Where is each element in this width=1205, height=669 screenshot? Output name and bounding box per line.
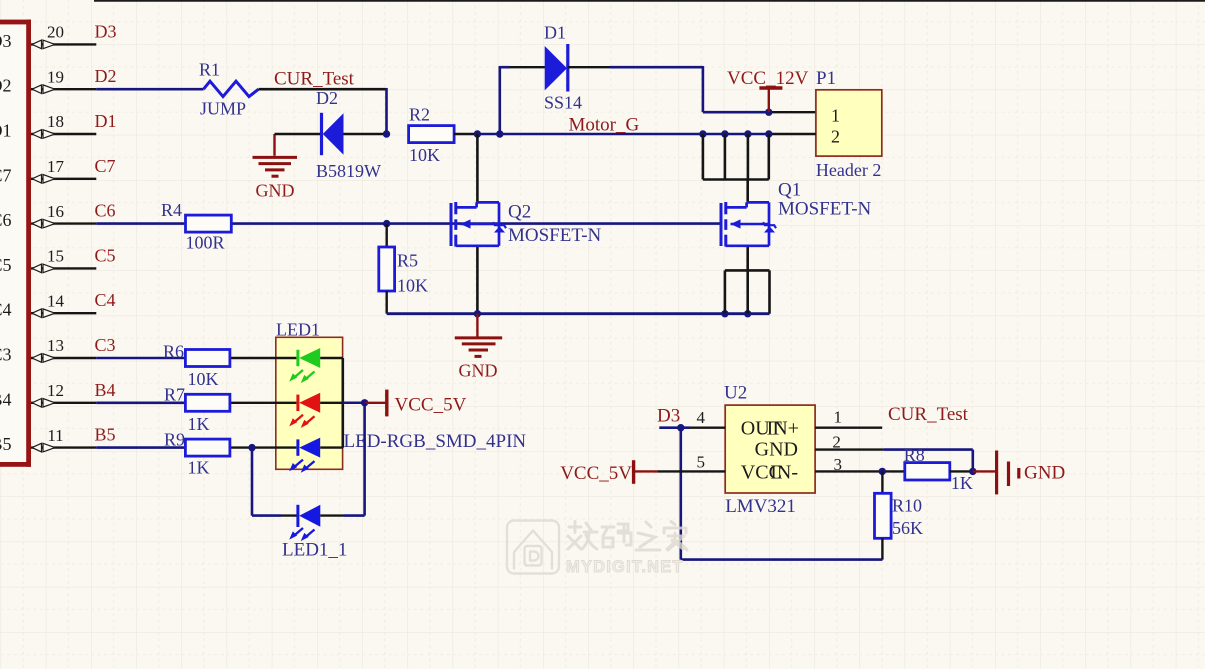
resistor R10 bbox=[881, 471, 883, 493]
svg-text:R9: R9 bbox=[164, 429, 185, 449]
junction R8/GND bbox=[969, 468, 976, 475]
wire R1 to CUR_Test corner bbox=[259, 88, 387, 91]
MCU pin 17 (C7) bbox=[31, 178, 96, 180]
svg-text:1: 1 bbox=[831, 105, 840, 125]
MCU pin 14 (C4) bbox=[31, 312, 96, 314]
wire source rail bbox=[387, 312, 770, 315]
junction ladder 2 bbox=[721, 130, 728, 137]
svg-text:18: 18 bbox=[47, 112, 64, 131]
wire net C3 to R6 bbox=[96, 357, 185, 360]
svg-text:2: 2 bbox=[832, 432, 841, 451]
diode D2 bbox=[275, 133, 322, 135]
wire feedback vertical bbox=[679, 428, 682, 560]
resistor R5 bbox=[386, 224, 388, 247]
svg-text:15: 15 bbox=[47, 247, 64, 266]
wire Q1 source ladder bbox=[725, 269, 770, 272]
wire Q1 source stem bbox=[746, 245, 749, 271]
wire ladder verticals (Q1 drain bus) bbox=[702, 134, 705, 180]
resistor R6 bbox=[185, 350, 230, 367]
junction VCC_5V/LED node bbox=[361, 399, 368, 406]
svg-text:1K: 1K bbox=[951, 473, 973, 493]
MCU connector body (left, partially off-sheet) bbox=[0, 24, 26, 462]
resistor R7 bbox=[185, 394, 230, 411]
junction B5 branch bbox=[248, 444, 255, 451]
wire common anode to VCC node bbox=[343, 402, 365, 405]
svg-text:3: 3 bbox=[833, 455, 842, 474]
svg-text:C6: C6 bbox=[0, 210, 12, 230]
svg-text:R7: R7 bbox=[164, 385, 185, 405]
wire net B4 to R7 bbox=[96, 401, 185, 404]
svg-text:1K: 1K bbox=[188, 458, 210, 478]
svg-text:D1: D1 bbox=[544, 23, 566, 43]
svg-text:C5: C5 bbox=[0, 255, 12, 275]
junction rail Q1b bbox=[744, 310, 751, 317]
LED1 blue element bbox=[230, 446, 297, 448]
svg-text:1: 1 bbox=[833, 408, 842, 427]
svg-text:JUMP: JUMP bbox=[200, 99, 246, 119]
svg-text:16: 16 bbox=[47, 202, 64, 221]
svg-text:100R: 100R bbox=[186, 233, 225, 253]
svg-text:GND: GND bbox=[1024, 463, 1065, 484]
svg-text:CUR_Test: CUR_Test bbox=[274, 68, 355, 89]
svg-text:13: 13 bbox=[47, 336, 64, 355]
watermark chinese text bbox=[568, 522, 687, 551]
junction ladder 1 bbox=[699, 130, 706, 137]
svg-text:20: 20 bbox=[47, 23, 64, 42]
wire ladder bus bar bbox=[703, 178, 769, 181]
svg-text:LED1: LED1 bbox=[276, 320, 320, 340]
svg-text:D1: D1 bbox=[95, 111, 117, 131]
svg-text:56K: 56K bbox=[892, 518, 923, 538]
svg-text:R1: R1 bbox=[199, 60, 220, 80]
svg-text:U2: U2 bbox=[724, 383, 747, 404]
svg-text:Motor_G: Motor_G bbox=[569, 114, 640, 135]
resistor R8 bbox=[905, 463, 950, 480]
svg-text:R8: R8 bbox=[904, 445, 925, 465]
junction node CUR_Test/D2/R2 bbox=[383, 130, 390, 137]
svg-text:Q1: Q1 bbox=[778, 180, 801, 201]
svg-text:B4: B4 bbox=[95, 380, 116, 400]
svg-text:C7: C7 bbox=[0, 165, 12, 185]
svg-text:LED-RGB_SMD_4PIN: LED-RGB_SMD_4PIN bbox=[344, 431, 527, 452]
svg-text:Q2: Q2 bbox=[508, 202, 531, 223]
svg-text:C4: C4 bbox=[95, 290, 116, 310]
svg-text:P1: P1 bbox=[816, 68, 836, 89]
wire D1 cathode to header bbox=[610, 66, 703, 69]
U2 pin 3 wire bbox=[815, 470, 905, 472]
diode D1 bbox=[510, 66, 545, 68]
junction D1 branch bbox=[496, 130, 503, 137]
svg-text:MOSFET-N: MOSFET-N bbox=[508, 225, 602, 246]
power symbol VCC_12V bbox=[768, 89, 770, 113]
wire D1 anode branch vertical bbox=[498, 66, 501, 134]
svg-text:4: 4 bbox=[697, 408, 706, 427]
svg-text:C3: C3 bbox=[0, 345, 12, 365]
MCU pin 19 (D2) bbox=[31, 88, 96, 90]
svg-text:11: 11 bbox=[47, 426, 63, 445]
wire CUR_Test vertical bbox=[385, 88, 388, 134]
MCU pin 18 (D1) bbox=[31, 133, 96, 135]
svg-text:MYDIGIT.NET: MYDIGIT.NET bbox=[566, 558, 684, 576]
MCU pin 20 (D3) bbox=[31, 43, 96, 45]
ground symbol GND (mid) bbox=[476, 314, 478, 337]
svg-text:C5: C5 bbox=[95, 245, 116, 265]
svg-text:GND: GND bbox=[459, 361, 498, 381]
junction Q2 drain bbox=[474, 130, 481, 137]
svg-text:D2: D2 bbox=[0, 76, 12, 96]
svg-text:17: 17 bbox=[47, 157, 65, 176]
svg-text:R10: R10 bbox=[892, 496, 922, 516]
LED component LED1 (RGB) bbox=[276, 337, 343, 469]
MCU pin 11 (B5) bbox=[31, 446, 96, 448]
svg-text:19: 19 bbox=[47, 67, 64, 86]
svg-text:VCC_5V: VCC_5V bbox=[395, 395, 467, 416]
wire Q2 drain stem bbox=[476, 134, 479, 203]
svg-text:14: 14 bbox=[47, 291, 65, 310]
svg-text:C7: C7 bbox=[95, 156, 116, 176]
ground symbol GND (under D2) bbox=[273, 134, 275, 156]
transistor Q2 MOSFET-N bbox=[450, 203, 453, 246]
svg-text:VCC_12V: VCC_12V bbox=[727, 68, 809, 89]
wire LED1_1 anode up to VCC node bbox=[320, 514, 344, 516]
wire D1 anode horizontal bbox=[500, 66, 510, 69]
junction rail/GND bbox=[474, 310, 481, 317]
watermark logo (mydigit house) bbox=[507, 521, 559, 574]
resistor R9 bbox=[185, 439, 230, 456]
LED1 green element bbox=[230, 357, 297, 359]
wire net C6 to R4 bbox=[96, 222, 185, 225]
svg-text:R6: R6 bbox=[163, 342, 184, 362]
junction rail Q1a bbox=[721, 310, 728, 317]
MCU pin 16 (C6) bbox=[31, 222, 96, 224]
U2 pin 5 wire bbox=[657, 470, 725, 472]
svg-text:CUR_Test: CUR_Test bbox=[888, 404, 969, 425]
svg-text:C3: C3 bbox=[95, 335, 116, 355]
svg-text:R5: R5 bbox=[397, 251, 418, 271]
wire gate drive (R4 to Q2/Q1 gates) bbox=[231, 222, 721, 225]
svg-text:10K: 10K bbox=[188, 369, 219, 389]
wire Q2 source stem bbox=[476, 245, 479, 314]
U2 pin 2 wire bbox=[815, 448, 884, 450]
connector P1 Header 2 bbox=[816, 90, 882, 156]
resistor R4 bbox=[186, 215, 232, 232]
U2 pin 1 wire bbox=[815, 427, 882, 429]
diode LED1_1 (blue) bbox=[296, 505, 299, 527]
svg-text:D1: D1 bbox=[0, 121, 12, 141]
svg-text:10K: 10K bbox=[397, 276, 428, 296]
MCU pin 15 (C5) bbox=[31, 267, 96, 269]
svg-text:D2: D2 bbox=[316, 88, 338, 108]
svg-text:D2: D2 bbox=[95, 66, 117, 86]
transistor Q1 MOSFET-N bbox=[720, 203, 723, 246]
svg-text:C4: C4 bbox=[0, 300, 12, 320]
header pin2 stub bbox=[769, 133, 816, 135]
wire feedback bottom bbox=[681, 558, 883, 561]
svg-text:Header 2: Header 2 bbox=[816, 160, 881, 180]
resistor R1 (zigzag) bbox=[204, 81, 259, 96]
MCU pin 13 (C3) bbox=[31, 357, 96, 359]
junction R10 top bbox=[879, 468, 886, 475]
junction ladder 4 bbox=[765, 130, 772, 137]
wire Motor_G horizontal bbox=[477, 133, 768, 136]
svg-text:2: 2 bbox=[831, 127, 840, 147]
svg-text:B5819W: B5819W bbox=[316, 161, 381, 181]
wire LED common anode vertical bbox=[341, 358, 344, 448]
svg-text:D3: D3 bbox=[0, 31, 12, 51]
U2 pin 4 wire (net D3) bbox=[659, 426, 690, 429]
svg-text:C6: C6 bbox=[95, 201, 116, 221]
svg-text:D3: D3 bbox=[657, 406, 680, 427]
svg-text:MOSFET-N: MOSFET-N bbox=[778, 199, 872, 220]
wire net B5 to R9 bbox=[96, 446, 185, 449]
junction D3/feedback bbox=[677, 424, 684, 431]
svg-text:B4: B4 bbox=[0, 389, 12, 409]
svg-text:GND: GND bbox=[256, 181, 295, 201]
svg-text:1K: 1K bbox=[188, 414, 210, 434]
junction ladder 3 bbox=[744, 130, 751, 137]
svg-text:LMV321: LMV321 bbox=[725, 496, 796, 517]
junction VCC_12V node bbox=[765, 109, 772, 116]
MCU pin 12 (B4) bbox=[31, 402, 96, 404]
svg-text:VCC_5V: VCC_5V bbox=[560, 463, 632, 484]
power symbol VCC_5V (U2) bbox=[632, 460, 635, 484]
svg-text:10K: 10K bbox=[409, 145, 440, 165]
sheet top border line bbox=[94, 0, 1205, 2]
svg-text:GND: GND bbox=[755, 438, 798, 460]
LED1 red element bbox=[230, 402, 297, 404]
svg-text:B5: B5 bbox=[0, 434, 12, 454]
svg-text:5: 5 bbox=[697, 453, 706, 472]
svg-text:R2: R2 bbox=[409, 105, 430, 125]
svg-text:LED1_1: LED1_1 bbox=[282, 540, 347, 561]
power symbol VCC_5V (LED) bbox=[365, 402, 386, 404]
svg-text:B5: B5 bbox=[95, 425, 116, 445]
op-amp U2 LMV321 bbox=[725, 405, 815, 493]
svg-text:D3: D3 bbox=[95, 21, 117, 41]
ground symbol GND (right, rotated) bbox=[973, 470, 995, 472]
svg-text:12: 12 bbox=[47, 381, 64, 400]
svg-text:R4: R4 bbox=[161, 200, 182, 220]
wire B5 down to LED1_1 bbox=[251, 448, 254, 516]
svg-text:IN+: IN+ bbox=[767, 417, 799, 439]
wire net D2 to R1 bbox=[96, 88, 203, 91]
wire Q1 drain stem bbox=[746, 180, 749, 204]
junction R5 top bbox=[383, 220, 390, 227]
svg-text:SS14: SS14 bbox=[544, 93, 582, 113]
resistor R2 bbox=[409, 126, 455, 143]
svg-text:IN-: IN- bbox=[770, 461, 798, 483]
